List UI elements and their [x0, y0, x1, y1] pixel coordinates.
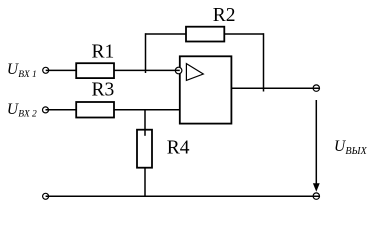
- svg-text:UВЫХ: UВЫХ: [334, 138, 368, 157]
- svg-text:R4: R4: [167, 137, 190, 158]
- svg-text:UВХ 2: UВХ 2: [7, 101, 37, 120]
- svg-text:R3: R3: [92, 80, 115, 101]
- svg-text:R1: R1: [92, 42, 115, 63]
- svg-text:R2: R2: [213, 5, 236, 26]
- svg-text:UВХ 1: UВХ 1: [7, 61, 37, 80]
